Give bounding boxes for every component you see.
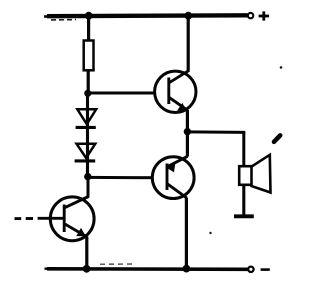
wire Q3 emitter up to output node: [186, 132, 189, 157]
terminal - (negative supply): [248, 267, 253, 272]
wire resistor to node A: [87, 71, 90, 95]
node bottom-left junction dot: [83, 265, 91, 273]
resistor R1: [84, 41, 94, 71]
speck near + terminal: [280, 66, 283, 69]
transistor Q2 (NPN, upper output): [155, 70, 196, 112]
wire Q2 emitter to output node: [186, 110, 189, 132]
transistor Q1 (NPN, driver): [38, 197, 94, 241]
wire output node to speaker: [187, 130, 245, 134]
wire rail to resistor: [87, 16, 90, 41]
node top-left junction dot: [85, 12, 93, 20]
node top-right junction dot: [184, 12, 192, 20]
wire top supply rail: [47, 13, 248, 18]
terminal + (positive supply): [248, 13, 253, 18]
diode D1: [76, 109, 97, 127]
sound tick mark by speaker: [274, 135, 280, 141]
node A (resistor/diode/Q2 base): [84, 90, 91, 97]
node output junction dot: [184, 128, 191, 135]
wire bottom rail ragged start: [45, 268, 53, 270]
wire Q1 emitter to bottom rail: [85, 237, 88, 269]
ground bar under speaker: [234, 214, 254, 218]
wire node B down to Q1 collector: [87, 177, 90, 198]
wire Q1 input dashes: [15, 217, 34, 220]
wire top rail ragged start: [44, 15, 52, 18]
wire Q2 collector to top rail: [187, 15, 190, 71]
label +: [259, 11, 269, 20]
transistor Q3 (PNP, lower output): [152, 156, 194, 198]
wire Q3 collector to bottom rail: [185, 198, 188, 270]
wire speaker to ground bar: [242, 185, 245, 216]
label -: [261, 268, 270, 271]
wire diode chain vertical: [86, 94, 89, 177]
node B (diodes/Q1 collector/Q3 base): [84, 173, 91, 180]
node bottom-right junction dot: [183, 265, 191, 273]
speaker LS1: [239, 155, 270, 193]
wire node A to Q2 base: [88, 92, 169, 95]
speck below output wire: [209, 232, 211, 234]
wire node B to Q3 base: [88, 176, 167, 179]
diode D2: [75, 144, 96, 161]
wire bottom supply rail: [47, 267, 248, 271]
